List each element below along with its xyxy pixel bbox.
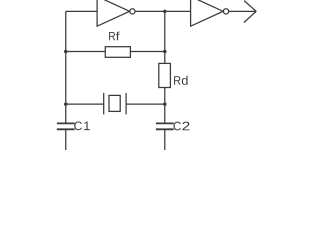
node Rf right junction: [163, 50, 167, 54]
inverter U2: [191, 0, 224, 26]
resistor Rd: [159, 63, 171, 87]
wire C2 to bottom edge: [164, 129, 166, 150]
resistor Rf: [105, 47, 130, 58]
node bottom right junction: [163, 102, 167, 106]
inverter U1: [97, 0, 130, 26]
label C1: [74, 121, 89, 130]
wire to Rf left: [66, 50, 106, 52]
arrow head output: [244, 1, 256, 23]
node top junction: [163, 10, 167, 14]
capacitor C2: [156, 123, 174, 129]
bubble U1 output: [130, 9, 135, 14]
wire output: [229, 10, 257, 12]
crystal X1 right plate: [125, 93, 127, 115]
crystal X1 body: [109, 95, 120, 111]
wire crystal right: [126, 103, 165, 105]
wire right rail upper: [164, 11, 166, 63]
wire Rf right: [130, 50, 164, 52]
wire U1 input: [66, 10, 97, 12]
wire left rail: [65, 11, 67, 122]
node bottom left junction: [64, 102, 68, 106]
label Rd: [174, 76, 188, 85]
wire right rail lower: [164, 88, 166, 123]
bubble U2 output: [223, 9, 228, 14]
wire C1 to bottom edge: [65, 129, 67, 150]
node Rf left junction: [64, 50, 68, 54]
label C2: [174, 122, 190, 131]
wire U1 to U2: [135, 10, 190, 12]
label Rf: [109, 32, 119, 41]
crystal X1 left plate: [103, 93, 105, 115]
capacitor C1: [57, 123, 75, 129]
wire crystal left: [66, 103, 104, 105]
